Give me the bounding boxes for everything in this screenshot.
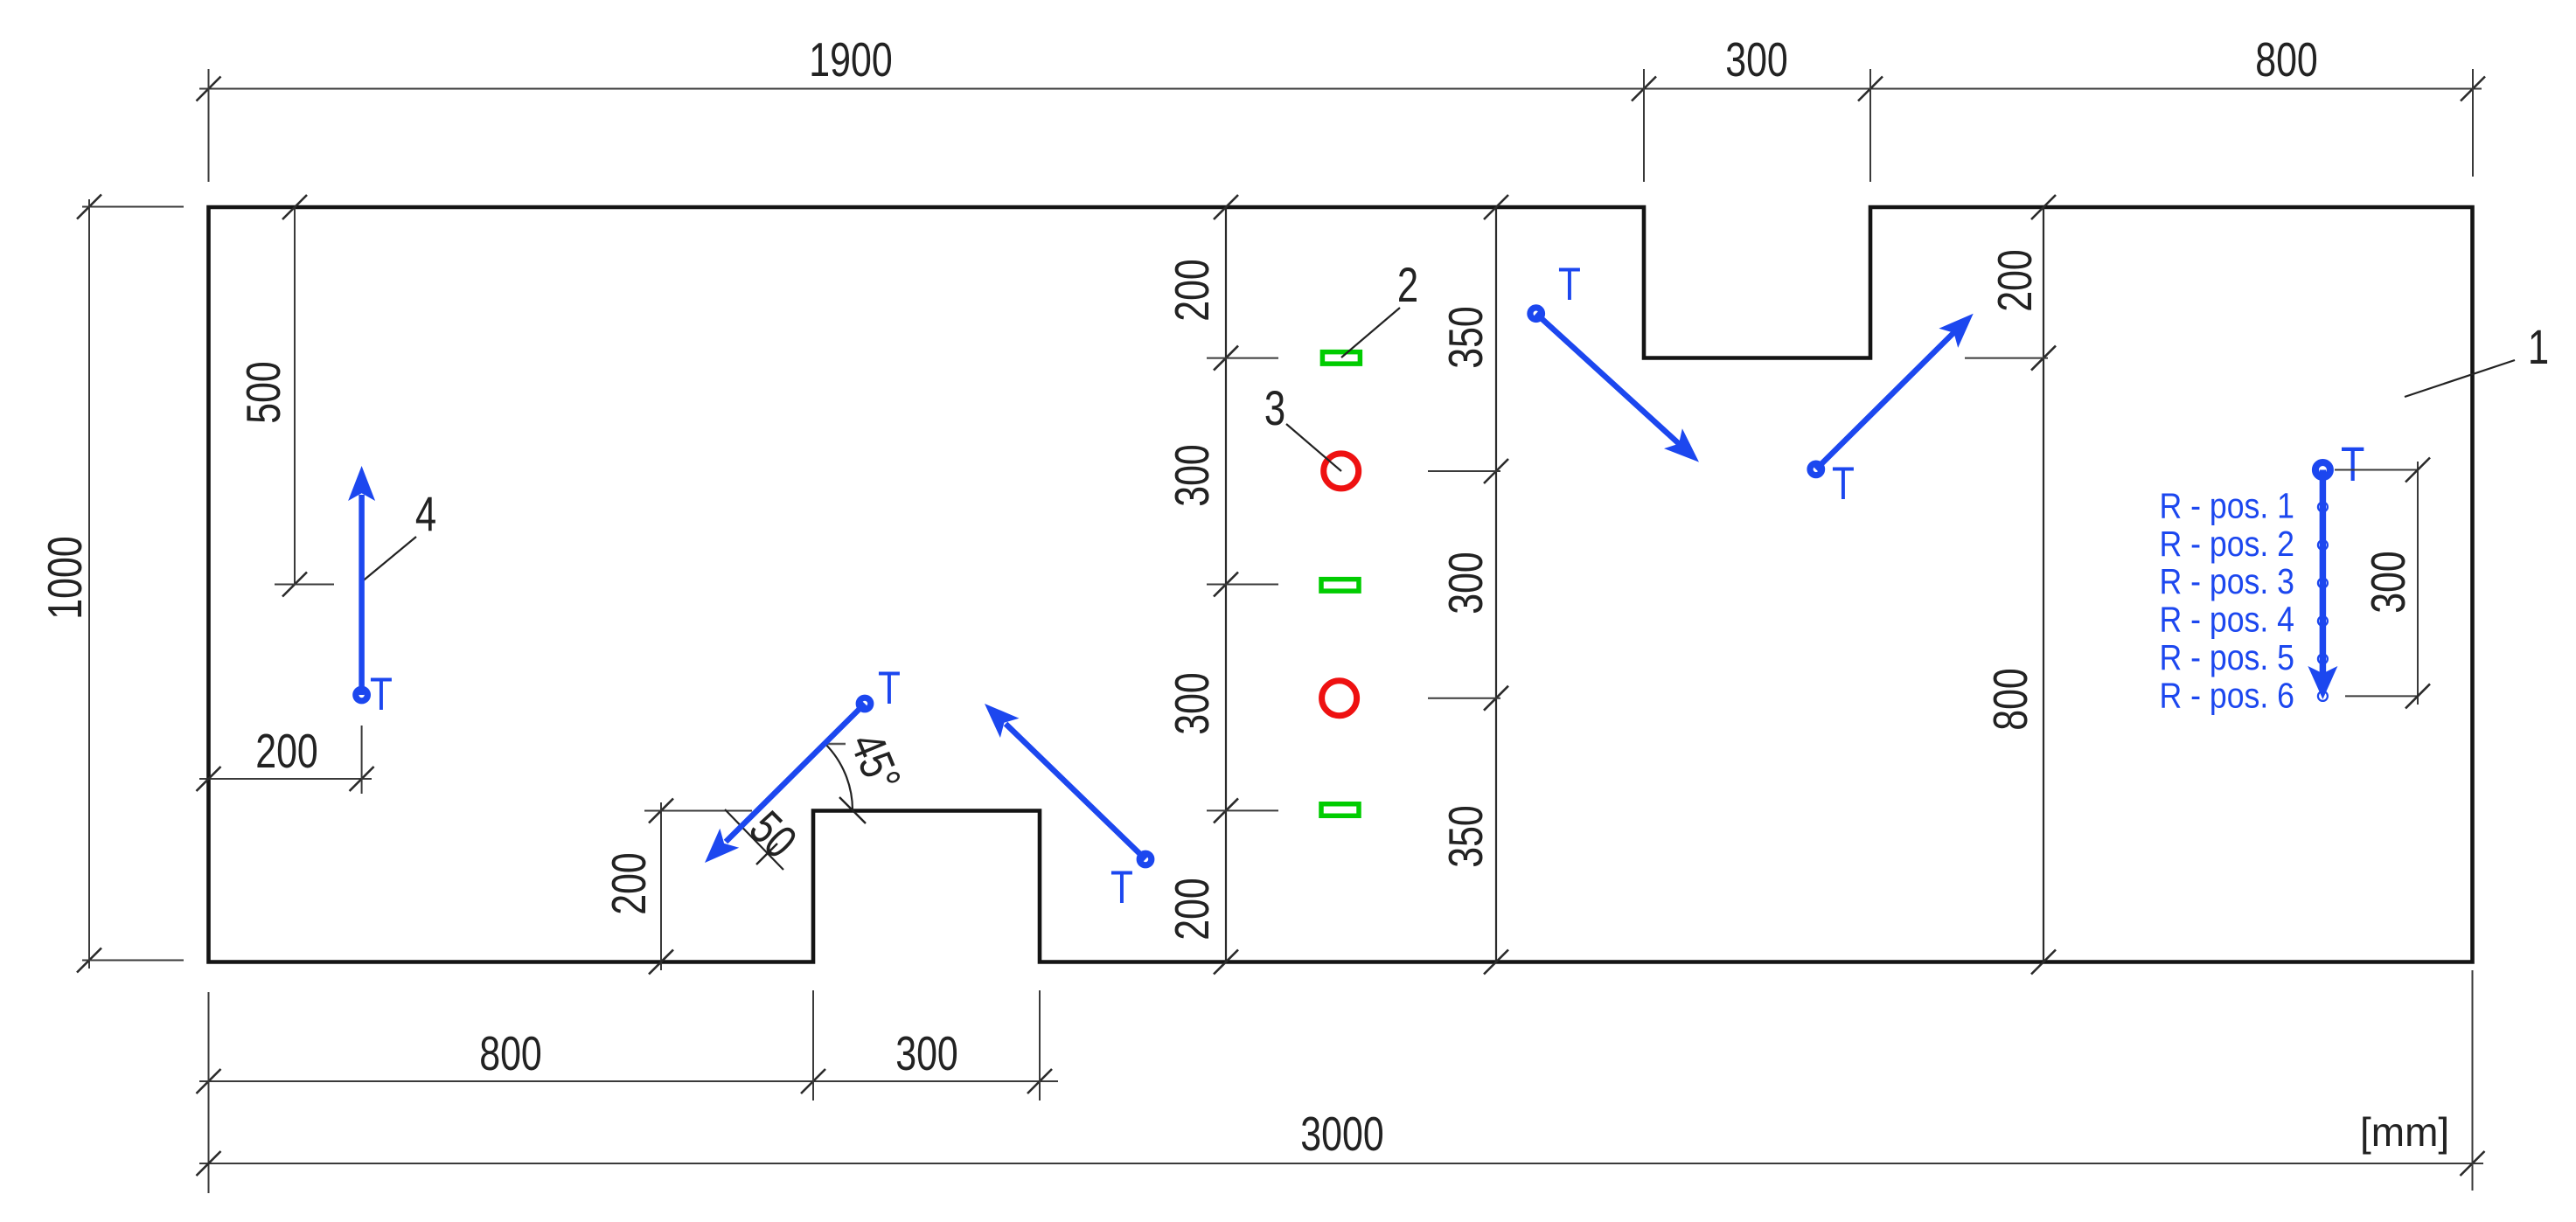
svg-text:200: 200 <box>1166 259 1219 322</box>
svg-text:1000: 1000 <box>38 536 92 619</box>
svg-text:R - pos. 4: R - pos. 4 <box>2159 600 2294 640</box>
svg-text:800: 800 <box>1984 668 2037 731</box>
bottom dimension line 800-300 <box>199 1080 1058 1082</box>
svg-text:300: 300 <box>1166 444 1219 507</box>
leader for label 1 <box>2405 360 2515 397</box>
extension line under T point <box>361 726 363 794</box>
bottom notch extension lines <box>812 990 814 1100</box>
svg-text:R - pos. 6: R - pos. 6 <box>2159 676 2294 716</box>
arrow T4 head <box>1664 428 1699 462</box>
arrow T4 origin circle <box>1530 308 1542 320</box>
svg-text:R - pos. 5: R - pos. 5 <box>2159 638 2294 678</box>
svg-text:2: 2 <box>1397 258 1418 312</box>
tick 50 far end <box>756 844 777 864</box>
svg-text:300: 300 <box>895 1027 958 1080</box>
svg-text:800: 800 <box>479 1027 542 1080</box>
horizontal tick at arc start <box>823 743 846 745</box>
overall dimension line 3000 <box>199 1163 2483 1164</box>
red circle marker 1 (part 3) <box>1324 454 1359 489</box>
ticks on right section line <box>1484 195 1508 219</box>
arrow T5 origin circle <box>1810 463 1822 476</box>
svg-text:200: 200 <box>255 725 318 778</box>
ticks 3000 <box>197 1151 221 1176</box>
R position circle 4 <box>2318 616 2328 626</box>
svg-text:350: 350 <box>1439 805 1493 868</box>
arrow T6 head <box>2308 666 2337 699</box>
arrow T4 shaft <box>1536 314 1680 445</box>
top dimension line <box>199 88 2482 90</box>
bottom dimension ticks <box>197 1069 221 1094</box>
R position circle 5 <box>2318 654 2328 663</box>
leader for label 2 <box>1341 308 1400 358</box>
diagonal tick at arc end <box>839 797 866 823</box>
dimension line 50 <box>725 809 783 870</box>
svg-text:T: T <box>2341 436 2364 491</box>
arrow T2 head <box>705 829 739 863</box>
arrow T3 shaft <box>1006 724 1145 859</box>
green slot marker 1 (part 2) <box>1322 352 1360 365</box>
green slot marker 2 (part 2) <box>1321 580 1359 592</box>
svg-text:300: 300 <box>1439 552 1493 614</box>
arrow T2 origin circle <box>859 698 871 710</box>
left corner extension line <box>208 992 210 1193</box>
top dimension ticks <box>197 77 221 101</box>
svg-text:200: 200 <box>1988 249 2042 312</box>
ticks on right part section line <box>2031 195 2056 219</box>
extension stubs at red sample levels <box>1428 470 1500 472</box>
R position circle 1 <box>2318 503 2328 512</box>
arrow T1 shaft <box>359 495 365 695</box>
extension stubs at green sample levels <box>1207 358 1278 359</box>
svg-text:1900: 1900 <box>809 33 892 87</box>
svg-text:3000: 3000 <box>1300 1107 1383 1161</box>
svg-text:T: T <box>1110 863 1133 914</box>
svg-text:500: 500 <box>237 361 290 424</box>
extension lines 300 right <box>2335 469 2418 471</box>
svg-text:R - pos. 1: R - pos. 1 <box>2159 486 2294 526</box>
svg-text:300: 300 <box>1166 672 1219 735</box>
leader for label 4 <box>360 537 416 583</box>
arrow T3 origin circle <box>1139 853 1152 865</box>
ticks 500 <box>282 195 307 219</box>
svg-text:4: 4 <box>415 487 436 541</box>
svg-text:T: T <box>370 670 393 721</box>
section line right of marker column <box>1495 207 1497 962</box>
right corner extension line <box>2472 970 2474 1191</box>
extension stub at 200 level <box>1965 358 2048 359</box>
svg-text:T: T <box>1558 260 1581 311</box>
dimension line 500 <box>294 207 296 585</box>
arrow T1 head <box>348 466 375 501</box>
extension stub 500 <box>275 584 334 586</box>
svg-text:[mm]: [mm] <box>2360 1109 2449 1155</box>
arrow T2 shaft <box>726 704 865 842</box>
ticks 200 notch <box>649 799 673 823</box>
left dimension extension lines <box>82 206 184 208</box>
extension stub notch top <box>644 810 752 812</box>
arrow T6 origin circle <box>2315 462 2330 477</box>
top dimension extension lines <box>208 69 210 182</box>
arrow T1 origin circle <box>356 689 368 701</box>
R position circle 3 <box>2318 579 2328 588</box>
red circle marker 2 (part 3) <box>1322 681 1357 716</box>
svg-text:3: 3 <box>1264 381 1285 435</box>
dimension line 300 right <box>2417 462 2419 705</box>
arrow T3 head <box>985 704 1020 738</box>
svg-text:R - pos. 3: R - pos. 3 <box>2159 562 2294 602</box>
ticks on left section line <box>1214 195 1238 219</box>
svg-text:300: 300 <box>2362 551 2415 614</box>
ticks 300 right <box>2405 458 2430 483</box>
leader for label 3 <box>1286 424 1341 471</box>
arrow T5 shaft <box>1816 332 1954 469</box>
section line left of marker column <box>1225 207 1227 962</box>
dimension line 200 notch <box>660 802 662 970</box>
arrow T5 head <box>1939 314 1973 348</box>
svg-text:200: 200 <box>1166 878 1219 941</box>
dimension line 200 left <box>199 778 372 780</box>
svg-text:350: 350 <box>1439 306 1493 369</box>
svg-text:200: 200 <box>602 852 656 915</box>
specimen plate outline (part 1) with top and bottom notches <box>209 207 2473 962</box>
45 degree arc <box>825 744 853 810</box>
left dimension ticks <box>77 195 101 219</box>
R position circle 6 <box>2318 691 2328 701</box>
section line right part <box>2043 207 2044 962</box>
svg-text:R - pos. 2: R - pos. 2 <box>2159 524 2294 565</box>
svg-text:1: 1 <box>2528 320 2549 374</box>
left dimension line 1000 <box>88 199 90 969</box>
svg-text:300: 300 <box>1725 33 1788 87</box>
ticks 200 left <box>197 767 221 791</box>
green slot marker 3 (part 2) <box>1321 804 1359 816</box>
svg-text:800: 800 <box>2255 33 2318 87</box>
arrow T6 shaft <box>2320 470 2327 676</box>
svg-text:T: T <box>878 663 901 715</box>
R position circle 2 <box>2318 540 2328 550</box>
svg-text:T: T <box>1832 459 1855 510</box>
